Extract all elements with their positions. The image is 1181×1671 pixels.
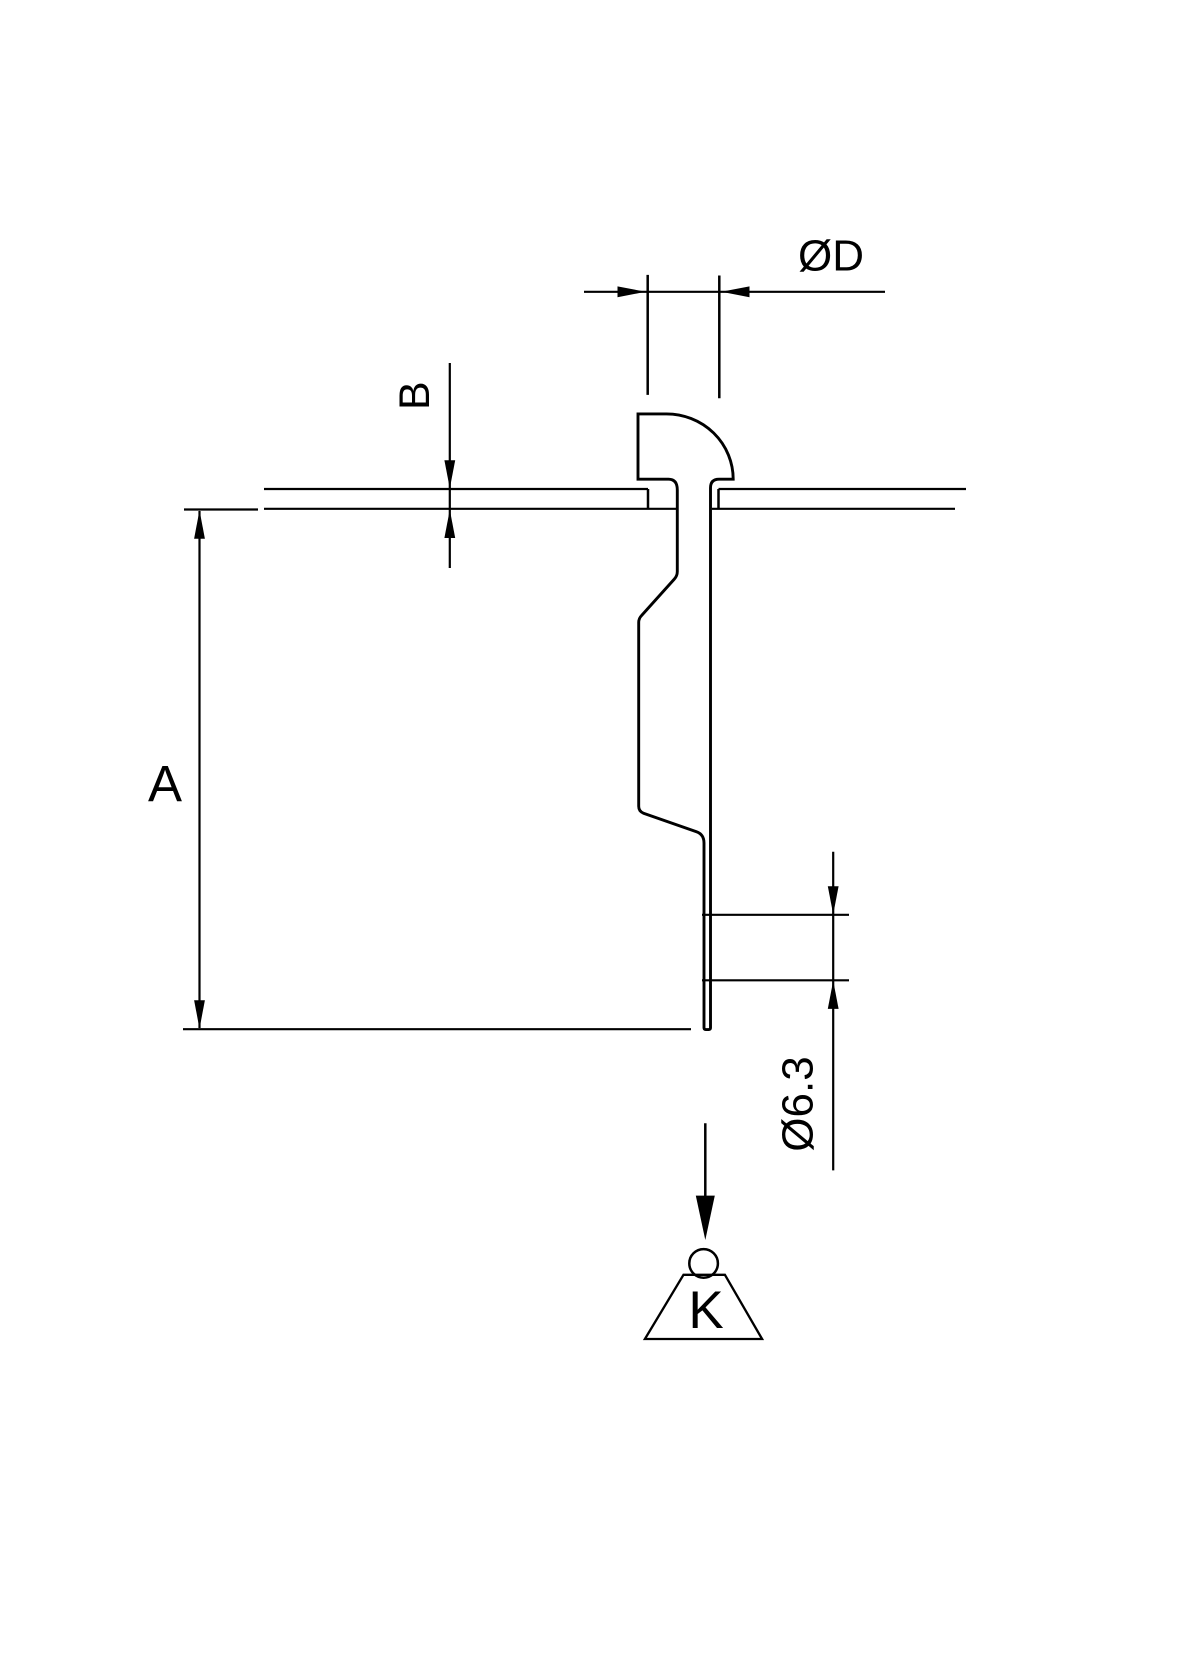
panel top surface line left <box>264 488 648 490</box>
pin groove line upper <box>702 914 849 916</box>
dimension line OD (horizontal) <box>584 291 885 293</box>
dimension line O6.3 (vertical) with down arrowhead <box>828 852 839 1171</box>
arrowhead A top (points up) <box>194 510 205 539</box>
svg-text:ØD: ØD <box>798 232 864 281</box>
arrowhead OD left (points right) <box>618 286 646 297</box>
arrowhead A bottom (points down) <box>194 1000 205 1028</box>
dimension line B lower arrowhead (points up) <box>444 510 455 538</box>
svg-text:Ø6.3: Ø6.3 <box>774 1056 823 1151</box>
panel top surface line right <box>719 488 967 490</box>
extension line A bottom <box>183 1028 691 1030</box>
dimension line B (vertical) with down arrowhead <box>444 363 455 568</box>
weight symbol knob circle <box>689 1249 718 1278</box>
pin groove line lower <box>702 979 849 981</box>
panel bottom surface line right <box>712 508 955 510</box>
extension line OD right <box>718 276 721 399</box>
panel hole wall right <box>717 489 720 509</box>
weight symbol trapezoid <box>645 1275 762 1339</box>
extension tick A top <box>184 508 258 510</box>
svg-text:A: A <box>148 755 182 812</box>
fastener body profile <box>638 414 733 1030</box>
dimension line A (vertical) <box>198 511 200 1028</box>
panel bottom surface line left <box>264 508 676 510</box>
arrowhead OD right (points left) <box>721 286 749 297</box>
load arrow K (vertical, points down) <box>696 1123 715 1240</box>
svg-text:B: B <box>391 381 439 410</box>
dimension line O6.3 lower arrowhead (points up) <box>828 981 839 1009</box>
extension line OD left <box>646 275 649 395</box>
svg-text:K: K <box>688 1281 723 1340</box>
panel hole wall left <box>647 489 650 509</box>
